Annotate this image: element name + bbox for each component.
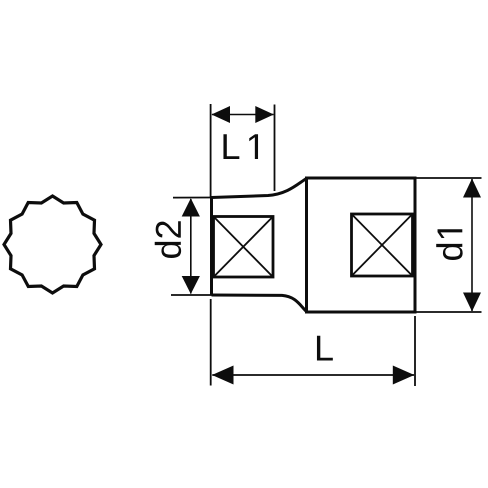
dimension L right arrowhead <box>393 366 415 385</box>
dimension d2 bottom extension line <box>171 294 212 296</box>
label d1 (rotated) <box>436 229 462 260</box>
dimension d2 down arrowhead <box>182 276 200 294</box>
dimension d1 line <box>471 179 473 311</box>
right square diagonal 1 <box>352 214 413 276</box>
square opening (right) <box>352 214 413 276</box>
dimension L right extension line <box>414 316 416 386</box>
dimension L left arrowhead <box>212 366 234 385</box>
label L <box>317 336 333 361</box>
dimension L1 left extension line <box>210 104 212 198</box>
dimension L left extension line <box>210 299 212 386</box>
dimension d2 line <box>190 199 192 294</box>
dimension d1 down arrowhead <box>463 293 481 312</box>
socket small-section top edge with transition curve <box>212 179 307 198</box>
socket small-section bottom edge with transition curve <box>212 295 307 312</box>
dimension L line <box>212 374 414 376</box>
right square diagonal 2 <box>352 214 413 276</box>
label L 1 <box>223 134 239 159</box>
dimension L1 left arrowhead <box>212 106 231 123</box>
left square diagonal 1 <box>214 217 274 278</box>
label d2 (rotated) <box>155 221 181 258</box>
socket large-section body rectangle <box>307 178 416 312</box>
dimension d1 top extension line <box>416 177 482 179</box>
square drive hole (left) <box>214 217 274 278</box>
dimension L1 right extension line <box>274 105 276 192</box>
dimension L1 right arrowhead <box>255 106 273 123</box>
dimension d1 bottom extension line <box>416 311 482 313</box>
left square diagonal 2 <box>214 217 274 278</box>
dimension d1 up arrowhead <box>463 179 481 198</box>
socket left face edge <box>210 198 213 296</box>
dimension d2 top extension line <box>173 197 212 199</box>
dimension d2 up arrowhead <box>182 198 200 216</box>
12-point socket opening (end view) <box>4 196 101 293</box>
dimension L1 line <box>212 114 274 116</box>
